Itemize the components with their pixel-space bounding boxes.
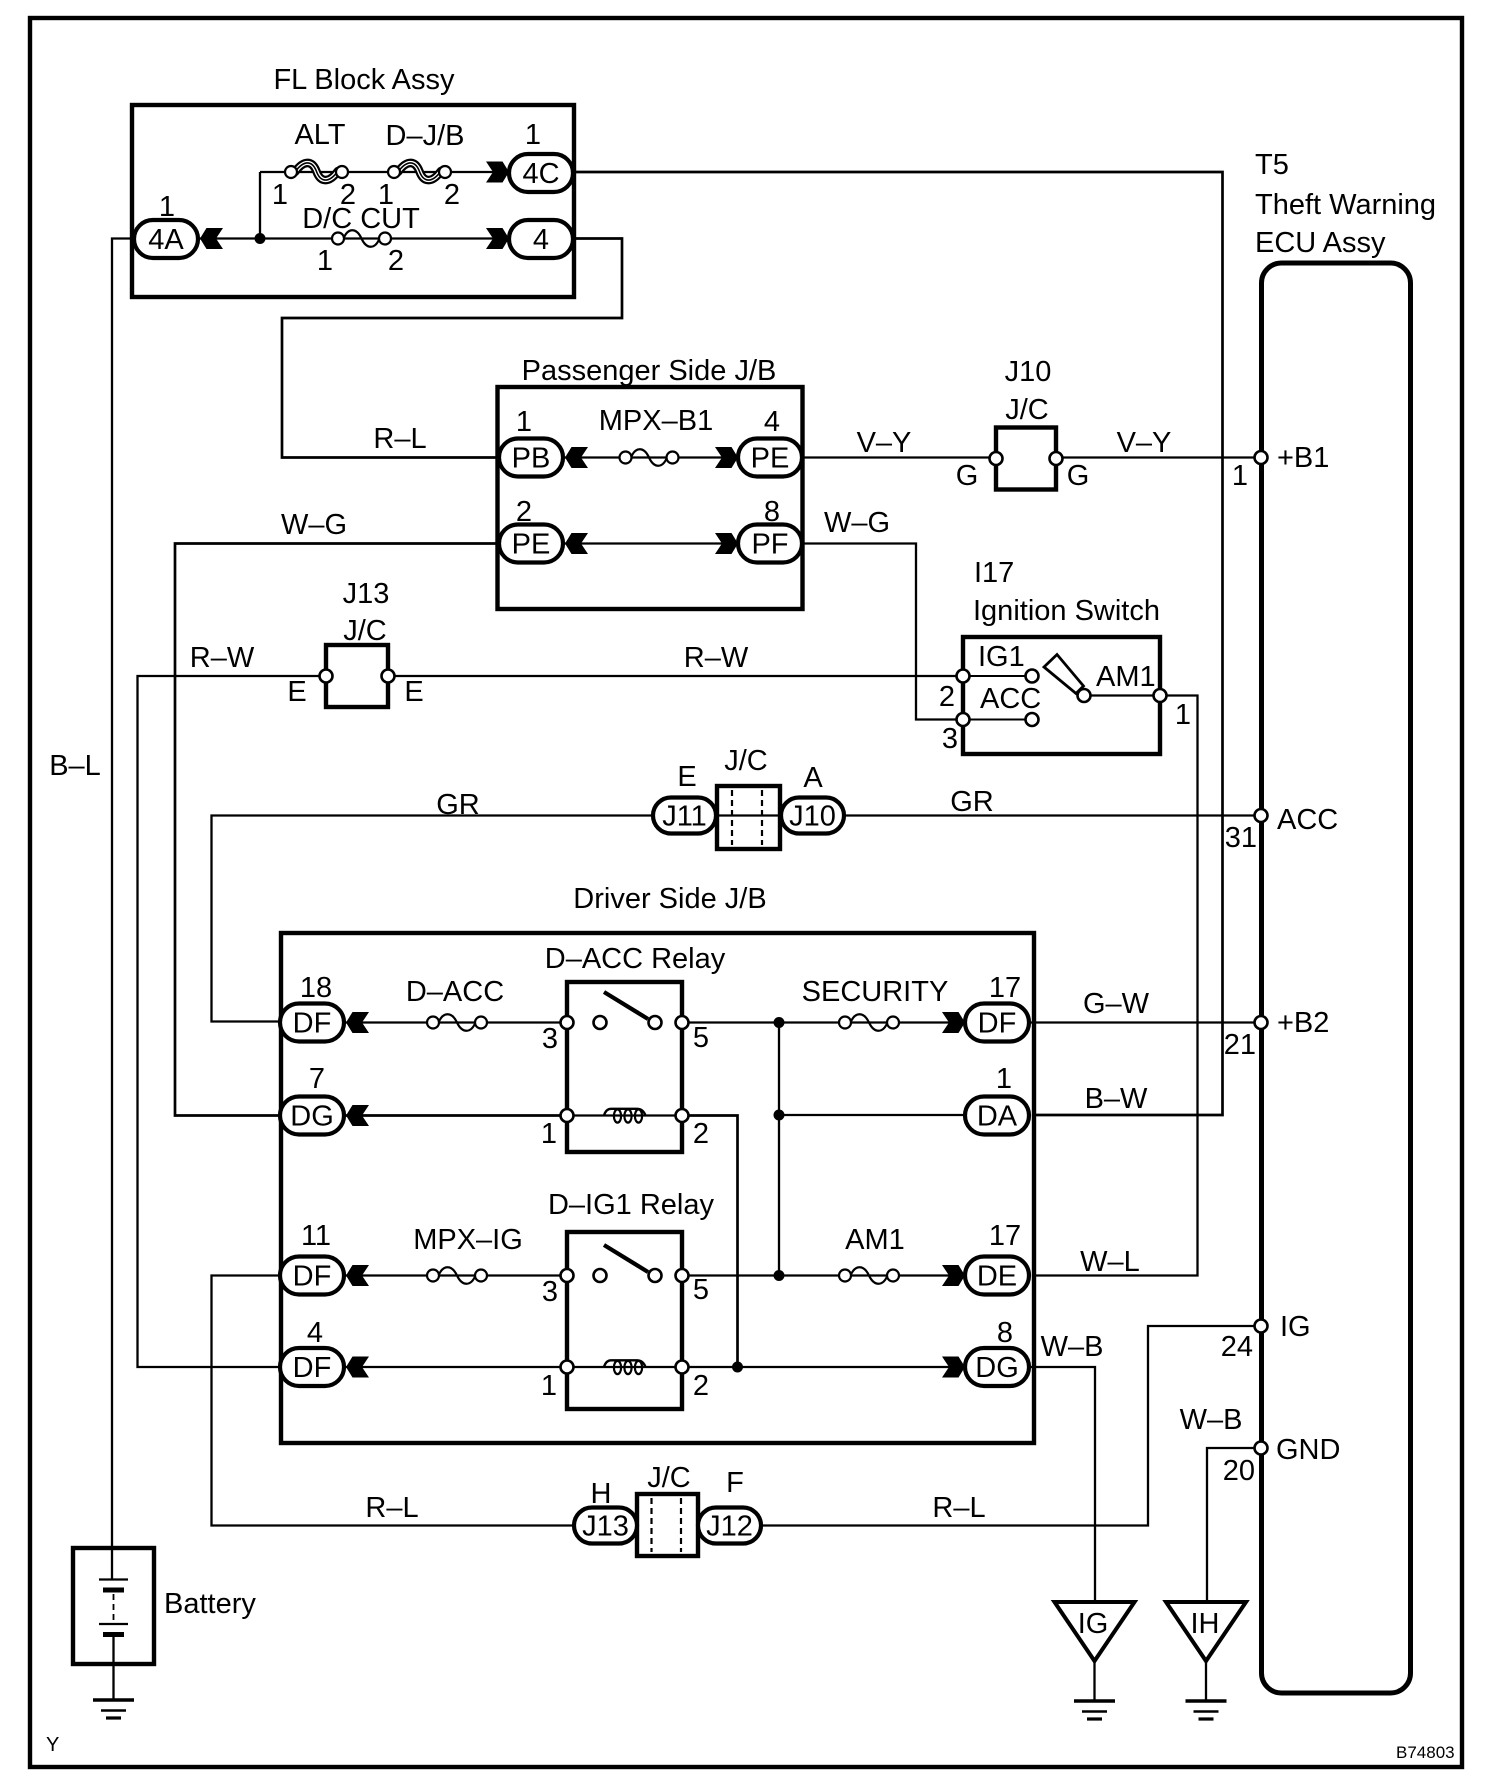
svg-text:2: 2 bbox=[516, 496, 532, 528]
wire AM1: ignition terminal 1 down to DE (W-L) bbox=[1032, 696, 1198, 1276]
svg-text:1: 1 bbox=[159, 191, 175, 223]
svg-text:Ignition Switch: Ignition Switch bbox=[973, 595, 1160, 627]
svg-text:A: A bbox=[803, 762, 823, 794]
svg-text:J13: J13 bbox=[343, 578, 390, 610]
wire DG-8 to IG triangle (W-B) bbox=[1029, 1367, 1095, 1602]
relay D-ACC coil terminal 1 bbox=[561, 1109, 574, 1122]
svg-text:D–ACC: D–ACC bbox=[406, 976, 504, 1008]
arrow into DF-4 bbox=[346, 1357, 369, 1378]
wire DF-17 to +B2 (G-W) bbox=[1029, 1021, 1261, 1023]
svg-text:J/C: J/C bbox=[647, 1462, 691, 1494]
relay D-IG1 blade bbox=[604, 1245, 648, 1272]
svg-text:G–W: G–W bbox=[1083, 988, 1150, 1020]
J13 junction connector box bbox=[326, 645, 388, 707]
svg-text:DG: DG bbox=[975, 1352, 1019, 1384]
svg-text:J13: J13 bbox=[582, 1511, 629, 1543]
relay D-IG1 terminal 3 bbox=[561, 1269, 574, 1282]
wire relay D-IG1 coil row internal bbox=[567, 1366, 682, 1368]
wire 4C to B-W to DA (via right vertical) bbox=[573, 172, 1223, 1115]
wire DG-7 to relay D-ACC coil 1 bbox=[346, 1114, 567, 1117]
svg-text:1: 1 bbox=[525, 119, 541, 151]
relay D-IG1 coil terminal 2 bbox=[676, 1361, 689, 1374]
connector PB bbox=[499, 439, 563, 477]
connector 4A bbox=[134, 220, 198, 258]
ignition terminal 3 bbox=[957, 713, 970, 726]
svg-text:Y: Y bbox=[46, 1734, 59, 1756]
svg-text:W–L: W–L bbox=[1080, 1246, 1140, 1278]
svg-text:PE: PE bbox=[512, 529, 551, 561]
svg-text:4: 4 bbox=[764, 406, 780, 438]
connector DF pin 11 bbox=[280, 1257, 344, 1295]
relay D-ACC box bbox=[567, 982, 682, 1152]
wire ALT feed vertical bbox=[259, 172, 261, 239]
svg-text:B–W: B–W bbox=[1085, 1083, 1148, 1115]
svg-text:J/C: J/C bbox=[724, 745, 768, 777]
ECU terminal GND bbox=[1255, 1442, 1268, 1455]
svg-text:2: 2 bbox=[693, 1118, 709, 1150]
svg-text:+B1: +B1 bbox=[1277, 442, 1329, 474]
connector J11 bbox=[653, 798, 716, 834]
wire relay D-ACC contact 5 to SECURITY to DF-17 bbox=[682, 1021, 965, 1023]
svg-text:V–Y: V–Y bbox=[857, 427, 912, 459]
ignition terminal 1 bbox=[1154, 689, 1167, 702]
svg-text:1: 1 bbox=[1175, 699, 1191, 731]
svg-text:ACC: ACC bbox=[980, 683, 1041, 715]
svg-text:4A: 4A bbox=[148, 224, 184, 256]
relay D-ACC coil bbox=[604, 1109, 646, 1116]
svg-text:FL Block Assy: FL Block Assy bbox=[273, 64, 455, 96]
svg-text:R–W: R–W bbox=[684, 642, 749, 674]
connector PE pin 4 bbox=[738, 439, 802, 477]
svg-text:W–G: W–G bbox=[281, 509, 347, 541]
ECU terminal ACC bbox=[1255, 809, 1268, 822]
arrow into 4 bbox=[486, 228, 509, 249]
connector J10 bbox=[781, 798, 844, 834]
svg-text:J10: J10 bbox=[1005, 356, 1052, 388]
svg-text:ACC: ACC bbox=[1277, 804, 1338, 836]
svg-text:B–L: B–L bbox=[49, 750, 101, 782]
battery plate long + 2 bbox=[99, 1623, 128, 1625]
svg-text:DF: DF bbox=[978, 1008, 1017, 1040]
svg-text:DF: DF bbox=[293, 1352, 332, 1384]
arrow into PB bbox=[565, 447, 588, 468]
svg-text:AM1: AM1 bbox=[845, 1224, 905, 1256]
svg-text:7: 7 bbox=[309, 1063, 325, 1095]
svg-text:11: 11 bbox=[301, 1220, 331, 1252]
svg-text:MPX–IG: MPX–IG bbox=[413, 1224, 523, 1256]
wire R-W: ignition IG1 terminal 2 to J13 J/C bbox=[393, 675, 963, 677]
svg-text:DG: DG bbox=[290, 1101, 334, 1133]
relay D-IG1 moving contact bbox=[649, 1269, 662, 1282]
svg-text:ECU Assy: ECU Assy bbox=[1255, 227, 1386, 259]
arrow into DG-7 bbox=[346, 1105, 369, 1126]
fuse AM1 bbox=[851, 1267, 888, 1284]
junction node at SECURITY row bbox=[774, 1017, 785, 1028]
svg-text:4: 4 bbox=[307, 1317, 323, 1349]
connector 4C bbox=[509, 154, 573, 192]
svg-text:G: G bbox=[1067, 460, 1090, 492]
fuse D-ACC bbox=[439, 1014, 476, 1031]
svg-text:V–Y: V–Y bbox=[1117, 427, 1172, 459]
connector DF pin 17 bbox=[965, 1004, 1029, 1042]
svg-text:H: H bbox=[591, 1478, 612, 1510]
svg-text:DF: DF bbox=[293, 1261, 332, 1293]
wire PB to PE with MPX-B1 bbox=[563, 456, 739, 458]
svg-text:W–G: W–G bbox=[824, 507, 890, 539]
J13 J/C right terminal E bbox=[382, 670, 395, 683]
connector DA pin 1 bbox=[965, 1097, 1029, 1135]
svg-text:4: 4 bbox=[533, 224, 549, 256]
wire J12 to IG terminal 24 (R-L) bbox=[759, 1326, 1261, 1526]
ignition lever bbox=[1044, 655, 1084, 694]
connector DG pin 7 bbox=[280, 1097, 344, 1135]
ECU terminal IG bbox=[1255, 1320, 1268, 1333]
battery mid dashed link bbox=[113, 1594, 115, 1620]
svg-text:E: E bbox=[287, 676, 306, 708]
ground under IH triangle bbox=[1186, 1699, 1227, 1703]
wire PF to ignition switch terminal 3 (W-G) bbox=[801, 544, 963, 720]
wire GND terminal to IH triangle (W-B) bbox=[1207, 1448, 1261, 1602]
wire relay D-IG1 coil 2 to DG-8 bbox=[682, 1366, 965, 1368]
wire relay D-ACC coil row internal bbox=[567, 1114, 682, 1116]
wire B-L: 4A to battery bbox=[112, 239, 134, 1550]
wire 4 to PB (R-L) bbox=[282, 239, 622, 458]
IG1 contact line bbox=[963, 675, 1032, 677]
fuse SECURITY bbox=[851, 1014, 888, 1031]
svg-text:IH: IH bbox=[1191, 1608, 1220, 1640]
ground triangle IH bbox=[1166, 1602, 1246, 1661]
svg-text:2: 2 bbox=[939, 681, 955, 713]
wire GR: ACC terminal to J11/J10 J/C to DF-18 bbox=[212, 816, 1262, 1022]
connector DF pin 18 bbox=[280, 1004, 344, 1042]
ground under IG triangle bbox=[1074, 1699, 1115, 1703]
svg-text:5: 5 bbox=[693, 1274, 709, 1306]
arrow into DF-11 bbox=[346, 1265, 369, 1286]
svg-text:IG: IG bbox=[1078, 1608, 1109, 1640]
svg-text:1: 1 bbox=[541, 1118, 557, 1150]
svg-text:E: E bbox=[677, 761, 696, 793]
fusible link ALT bbox=[295, 163, 338, 180]
connector DF pin 4 bbox=[280, 1348, 344, 1386]
relay D-IG1 box bbox=[567, 1232, 682, 1409]
svg-text:J12: J12 bbox=[706, 1511, 753, 1543]
wire IH triangle to ground bbox=[1205, 1661, 1207, 1701]
ignition terminal 2 bbox=[957, 670, 970, 683]
svg-text:Battery: Battery bbox=[164, 1588, 256, 1620]
svg-text:GR: GR bbox=[950, 786, 994, 818]
svg-text:8: 8 bbox=[997, 1317, 1013, 1349]
svg-text:R–L: R–L bbox=[932, 1492, 985, 1524]
battery plate long + bbox=[99, 1578, 128, 1580]
arrow into PE bbox=[715, 447, 738, 468]
ground under battery bbox=[93, 1698, 134, 1702]
svg-text:2: 2 bbox=[388, 245, 404, 277]
svg-text:31: 31 bbox=[1225, 822, 1257, 854]
Passenger Side J/B box bbox=[498, 387, 803, 609]
svg-text:W–B: W–B bbox=[1180, 1404, 1243, 1436]
battery internal wire top bbox=[111, 1548, 113, 1579]
svg-text:SECURITY: SECURITY bbox=[802, 976, 949, 1008]
svg-text:MPX–B1: MPX–B1 bbox=[599, 405, 713, 437]
ignition switch I17 box bbox=[963, 637, 1160, 754]
svg-text:I17: I17 bbox=[974, 557, 1014, 589]
svg-text:D–IG1 Relay: D–IG1 Relay bbox=[548, 1189, 715, 1221]
ACC contact line bbox=[963, 719, 1032, 721]
svg-text:2: 2 bbox=[444, 179, 460, 211]
arrow into DG-8 bbox=[942, 1357, 965, 1378]
junction node at DA row bbox=[774, 1110, 785, 1121]
wire IG triangle to ground bbox=[1093, 1661, 1095, 1701]
svg-text:Driver Side J/B: Driver Side J/B bbox=[573, 883, 766, 915]
svg-text:J/C: J/C bbox=[1005, 394, 1049, 426]
connector 4 bbox=[509, 220, 573, 258]
connector PE pin 2 bbox=[499, 525, 563, 563]
battery plate short - 2 bbox=[103, 1632, 124, 1637]
svg-text:R–L: R–L bbox=[365, 1492, 418, 1524]
svg-text:D–J/B: D–J/B bbox=[386, 120, 465, 152]
fuse MPX-IG bbox=[439, 1267, 476, 1284]
fuse D/C CUT bbox=[344, 230, 380, 247]
svg-text:PB: PB bbox=[512, 443, 551, 475]
svg-text:1: 1 bbox=[541, 1370, 557, 1402]
J10 junction connector box bbox=[996, 428, 1056, 490]
ground triangle IG bbox=[1055, 1602, 1135, 1661]
node junction in FL block bbox=[255, 233, 266, 244]
svg-text:1: 1 bbox=[272, 179, 288, 211]
connector J12 bbox=[698, 1508, 761, 1544]
svg-text:J10: J10 bbox=[789, 801, 836, 833]
wire PE2 left down to DG7 (W-G) bbox=[175, 544, 500, 1116]
svg-text:8: 8 bbox=[764, 496, 780, 528]
svg-text:F: F bbox=[726, 1467, 744, 1499]
junction node at DG-8 row bbox=[732, 1362, 743, 1373]
svg-text:17: 17 bbox=[989, 1220, 1021, 1252]
connector PF bbox=[738, 525, 802, 563]
relay D-IG1 coil bbox=[604, 1360, 646, 1367]
fuse MPX-B1 bbox=[631, 449, 667, 466]
svg-text:3: 3 bbox=[942, 723, 958, 755]
svg-text:GR: GR bbox=[436, 789, 480, 821]
svg-text:+B2: +B2 bbox=[1277, 1007, 1329, 1039]
wire PE to J10 J/C (V-Y) bbox=[801, 456, 991, 458]
arrow into DF-18 bbox=[346, 1012, 369, 1033]
junction node at AM1 row bbox=[774, 1270, 785, 1281]
svg-text:J/C: J/C bbox=[343, 615, 387, 647]
J13/J12 junction connector box bbox=[637, 1494, 698, 1556]
arrow into 4A bbox=[200, 228, 223, 249]
J10 J/C left terminal G bbox=[990, 452, 1003, 465]
J11/J10 junction connector box bbox=[717, 786, 780, 849]
svg-text:5: 5 bbox=[693, 1022, 709, 1054]
svg-text:E: E bbox=[404, 676, 423, 708]
wire DF-18 to relay D-ACC contact 3 bbox=[346, 1021, 567, 1023]
J10 J/C right terminal G bbox=[1050, 452, 1063, 465]
svg-text:W–B: W–B bbox=[1041, 1331, 1104, 1363]
svg-text:PE: PE bbox=[751, 443, 790, 475]
wire PE2 to PF bbox=[563, 542, 739, 544]
svg-text:IG1: IG1 bbox=[978, 641, 1025, 673]
svg-text:PF: PF bbox=[751, 529, 788, 561]
svg-text:Theft Warning: Theft Warning bbox=[1255, 189, 1436, 221]
arrow into PE2 bbox=[565, 533, 588, 554]
FL Block Assy box bbox=[132, 105, 574, 297]
svg-text:18: 18 bbox=[300, 972, 332, 1004]
relay D-IG1 terminal 5 bbox=[676, 1269, 689, 1282]
wire bus node vertical (B-W feed to SECURITY and AM1) bbox=[778, 1023, 780, 1276]
relay D-ACC fixed contact bbox=[594, 1016, 607, 1029]
svg-text:1: 1 bbox=[317, 245, 333, 277]
relay D-ACC coil terminal 2 bbox=[676, 1109, 689, 1122]
svg-text:AM1: AM1 bbox=[1096, 661, 1156, 693]
wire J10 J/C to +B1 (V-Y) bbox=[1061, 456, 1261, 458]
Driver Side J/B box bbox=[281, 933, 1034, 1443]
AM1 pivot contact bbox=[1078, 689, 1091, 702]
battery internal wire bottom bbox=[112, 1634, 114, 1700]
wire D/C CUT row 4A to 4 bbox=[198, 237, 509, 239]
svg-text:B74803: B74803 bbox=[1396, 1743, 1455, 1762]
ECU T5 outline bbox=[1262, 263, 1411, 1693]
J13 J/C left terminal E bbox=[320, 670, 333, 683]
svg-text:J11: J11 bbox=[662, 801, 707, 833]
svg-text:DA: DA bbox=[977, 1101, 1018, 1133]
battery box bbox=[73, 1548, 154, 1664]
connector J13 bbox=[574, 1508, 637, 1544]
IG1 fixed contact bbox=[1026, 670, 1039, 683]
svg-text:DF: DF bbox=[293, 1008, 332, 1040]
svg-text:D/C CUT: D/C CUT bbox=[302, 203, 420, 235]
connector DG pin 8 bbox=[965, 1348, 1029, 1386]
svg-text:3: 3 bbox=[542, 1276, 558, 1308]
wire relay D-ACC coil 2 down to DG-8 row bbox=[682, 1116, 738, 1368]
svg-text:1: 1 bbox=[516, 406, 532, 438]
svg-text:Passenger Side J/B: Passenger Side J/B bbox=[522, 355, 777, 387]
svg-text:2: 2 bbox=[693, 1370, 709, 1402]
relay D-IG1 coil terminal 1 bbox=[561, 1361, 574, 1374]
svg-text:17: 17 bbox=[989, 972, 1021, 1004]
arrow into PF bbox=[715, 533, 738, 554]
svg-text:IG: IG bbox=[1280, 1311, 1311, 1343]
ECU terminal +B2 bbox=[1255, 1016, 1268, 1029]
wire DF-11 to relay D-IG1 contact 3 bbox=[346, 1274, 567, 1276]
svg-text:1: 1 bbox=[1232, 460, 1248, 492]
battery plate short - bbox=[103, 1588, 124, 1593]
arrow into DF-17 bbox=[942, 1012, 965, 1033]
svg-text:1: 1 bbox=[996, 1063, 1012, 1095]
wire node to DA (B-W) bbox=[779, 1114, 965, 1116]
wire R-W: J13 J/C down to DF-4 bbox=[138, 676, 322, 1367]
svg-text:GND: GND bbox=[1276, 1434, 1340, 1466]
svg-text:24: 24 bbox=[1221, 1331, 1253, 1363]
connector DE pin 17 bbox=[965, 1257, 1029, 1295]
arrow into DE bbox=[942, 1265, 965, 1286]
relay D-ACC moving contact bbox=[649, 1016, 662, 1029]
ECU terminal +B1 bbox=[1255, 451, 1268, 464]
arrow into 4C bbox=[486, 162, 509, 183]
svg-text:D–ACC Relay: D–ACC Relay bbox=[545, 943, 726, 975]
svg-text:4C: 4C bbox=[522, 158, 559, 190]
svg-text:G: G bbox=[956, 460, 979, 492]
svg-text:20: 20 bbox=[1223, 1455, 1255, 1487]
wire ALT/D-J/B fuse row to 4C bbox=[260, 171, 509, 173]
wire DF-11 left down to R-L row bbox=[212, 1276, 578, 1526]
relay D-ACC blade bbox=[604, 992, 648, 1019]
svg-text:ALT: ALT bbox=[294, 119, 345, 151]
svg-text:T5: T5 bbox=[1255, 149, 1289, 181]
svg-text:R–L: R–L bbox=[373, 423, 426, 455]
wire DF-4 to relay D-IG1 coil 1 bbox=[346, 1366, 567, 1368]
wire relay D-IG1 contact 5 to AM1 fuse to DE bbox=[682, 1274, 965, 1276]
fusible link D-J/B bbox=[398, 163, 441, 180]
svg-text:R–W: R–W bbox=[190, 642, 255, 674]
relay D-ACC terminal 3 bbox=[561, 1016, 574, 1029]
relay D-ACC terminal 5 bbox=[676, 1016, 689, 1029]
svg-text:DE: DE bbox=[977, 1261, 1017, 1293]
svg-text:3: 3 bbox=[542, 1023, 558, 1055]
relay D-IG1 fixed contact bbox=[594, 1269, 607, 1282]
ACC fixed contact bbox=[1026, 713, 1039, 726]
svg-text:21: 21 bbox=[1224, 1029, 1256, 1061]
